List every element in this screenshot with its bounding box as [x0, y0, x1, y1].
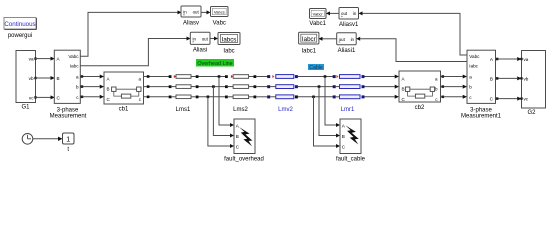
svg-text:B: B [490, 76, 493, 81]
svg-text:Iabc: Iabc [469, 63, 478, 68]
wire Measurement.Iabc to Aliasi [80, 37, 190, 66]
svg-text:a: a [469, 75, 472, 80]
svg-text:b: b [435, 87, 438, 92]
wire Lmr1 to cb2.B [365, 85, 400, 89]
3-phase Measurement block [50, 50, 87, 119]
annotation Cable [308, 64, 324, 71]
wire Aliasv1 to Vabcr [326, 11, 339, 15]
svg-text:B: B [236, 134, 239, 139]
cable segment Lmr1 phase C [333, 95, 365, 99]
wire cb2.c to Measurement1.c [441, 95, 468, 99]
svg-text:a: a [435, 77, 438, 82]
svg-text:out: out [202, 37, 209, 42]
wire cb1.b to Lms1 phase B [144, 85, 171, 88]
svg-text:B: B [57, 76, 60, 81]
svg-text:Iabcs: Iabcs [222, 36, 237, 43]
wire cb1.a to Lms1 phase A [144, 75, 171, 78]
svg-text:out: out [193, 10, 200, 15]
svg-text:b: b [76, 85, 79, 90]
wire G1.vc to Measurement.C [36, 95, 55, 99]
wire Measurement.a to cb1.A [80, 75, 104, 79]
svg-text:Overhead Line: Overhead Line [197, 61, 232, 67]
svg-text:Vabc1: Vabc1 [309, 21, 326, 27]
wire cb1.c to Lms1 phase C [144, 96, 171, 99]
goto tag Iabcs [218, 33, 240, 55]
svg-text:in: in [183, 10, 187, 15]
line segment Lms2 phase A [225, 75, 256, 79]
subsystem Aliasi1 [337, 33, 357, 54]
wire clock to t [33, 137, 63, 141]
wire tap B to fault_cable.B [319, 87, 340, 138]
svg-text:powergui: powergui [8, 33, 32, 39]
wire tap C to fault_overhead.C [208, 97, 234, 148]
svg-text:va: va [524, 57, 529, 62]
svg-text:Aliasi1: Aliasi1 [338, 48, 356, 54]
cable segment Lmr1 phase A [333, 75, 365, 79]
wire G1.va to Measurement.A [36, 57, 55, 61]
svg-text:cb1: cb1 [119, 107, 129, 113]
fault block fault_cable [336, 119, 366, 163]
svg-text:in: in [353, 11, 357, 16]
wire Measurement1.C to G2.vc [496, 97, 522, 101]
wire tap C to fault_cable.C [314, 97, 341, 148]
wire Measurement.Vabc to Aliasv [80, 10, 181, 56]
svg-text:vb: vb [524, 76, 529, 81]
wire Measurement1.Vabc to Aliasv1 [359, 11, 468, 55]
svg-text:Vabc: Vabc [68, 54, 79, 59]
svg-text:Cable: Cable [309, 65, 323, 71]
svg-text:out: out [341, 11, 348, 16]
svg-text:Measurement1: Measurement1 [461, 114, 502, 120]
powergui block Continuous [4, 18, 37, 39]
svg-text:Aliasv: Aliasv [183, 20, 199, 26]
wire Lms1 to Lms2 phase A with tap node [199, 75, 228, 78]
wire Lms2 to Lmv2 phase C [256, 96, 269, 98]
line segment Lms1 phase B [169, 85, 199, 89]
generator G1 [16, 51, 37, 111]
wire Measurement1.B to G2.vb [496, 76, 522, 80]
svg-text:Iabc1: Iabc1 [301, 49, 316, 55]
svg-text:G2: G2 [527, 110, 536, 116]
wire Lms1 to Lms2 phase B with tap node [199, 85, 228, 88]
svg-text:cb2: cb2 [415, 105, 425, 111]
subsystem Aliasi [190, 32, 210, 54]
line segment Lms1 phase A [169, 75, 199, 79]
svg-text:Vabc: Vabc [213, 20, 226, 26]
svg-text:Iabcr: Iabcr [302, 36, 316, 43]
wire G1.vb to Measurement.B [36, 76, 55, 80]
block t (display 1) [63, 133, 75, 153]
wire Measurement.b to cb1.B [80, 85, 104, 89]
goto tag Vabcr [309, 9, 326, 27]
wire Lms2 to Lmv2 phase A [256, 76, 269, 78]
generator G2 [520, 51, 545, 117]
svg-text:Lmv2: Lmv2 [278, 107, 293, 113]
svg-text:Aliasv1: Aliasv1 [339, 22, 359, 28]
3-phase Measurement1 block [461, 50, 502, 119]
wire Measurement1.Iabc to Aliasi1 [356, 37, 467, 62]
line segment Lms2 phase C [225, 95, 256, 99]
svg-text:fault_cable: fault_cable [336, 157, 366, 163]
svg-text:B: B [342, 134, 345, 139]
svg-text:Lms2: Lms2 [233, 107, 248, 113]
breaker cb2 [399, 71, 441, 111]
wire tap A to fault_cable.A [325, 77, 340, 128]
goto tag Vabcs [211, 7, 229, 27]
svg-text:Lmr1: Lmr1 [341, 107, 355, 113]
svg-text:1: 1 [66, 137, 70, 144]
cable segment Lmv2 phase A [267, 75, 298, 79]
wire tap A to fault_overhead.A [219, 77, 234, 128]
subsystem Aliasv1 [339, 8, 359, 28]
wire Aliasi1 to Iabcr [319, 37, 337, 41]
subsystem Aliasv [181, 6, 201, 26]
svg-text:b: b [469, 85, 472, 90]
svg-text:a: a [138, 77, 141, 82]
svg-text:Vabcr: Vabcr [313, 12, 324, 17]
svg-text:fault_overhead: fault_overhead [224, 157, 264, 163]
wire cb2.a to Measurement1.a [441, 75, 468, 79]
svg-text:Vabc: Vabc [469, 54, 480, 59]
cable segment Lmv2 phase C [267, 95, 298, 99]
fault block fault_overhead [224, 119, 264, 163]
svg-text:B: B [107, 87, 110, 92]
wire Lmv2 to Lmr1 phase C with tap node [298, 96, 334, 99]
svg-text:in: in [193, 37, 197, 42]
svg-text:vc: vc [29, 95, 34, 100]
svg-text:Lms1: Lms1 [176, 107, 191, 113]
svg-text:Measurement: Measurement [50, 114, 87, 120]
svg-text:out: out [339, 37, 346, 42]
wire Measurement.c to cb1.C [80, 95, 104, 99]
svg-text:Iabc: Iabc [70, 63, 79, 68]
svg-text:vc: vc [524, 97, 529, 102]
wire tap B to fault_overhead.B [213, 87, 234, 138]
svg-text:Iabc: Iabc [223, 49, 234, 55]
wire Lmr1 to cb2.A [365, 75, 400, 79]
wire Aliasv to Goto Vabcs [202, 10, 211, 14]
svg-text:G1: G1 [21, 105, 30, 111]
svg-text:vb: vb [29, 76, 34, 81]
wire Lms2 to Lmv2 phase B [256, 86, 269, 88]
wire Lmr1 to cb2.C [365, 95, 400, 99]
svg-text:in: in [351, 37, 355, 42]
svg-text:va: va [29, 57, 34, 62]
breaker cb1 [104, 72, 144, 113]
line segment Lms1 phase C [169, 95, 199, 99]
svg-text:a: a [76, 75, 79, 80]
clock block [22, 134, 33, 145]
svg-text:Vabcs: Vabcs [214, 10, 225, 15]
wire Aliasi to Goto Iabcs [211, 37, 219, 41]
cable segment Lmv2 phase B [267, 85, 298, 89]
annotation Overhead Line [196, 59, 234, 67]
wire cb2.b to Measurement1.b [441, 85, 468, 89]
svg-text:Aliasi: Aliasi [193, 48, 207, 54]
line segment Lms2 phase B [225, 85, 256, 89]
wire Measurement1.A to G2.va [496, 57, 522, 61]
svg-text:B: B [402, 87, 405, 92]
svg-text:Continuous: Continuous [4, 21, 35, 28]
cable segment Lmr1 phase B [333, 85, 365, 89]
goto tag Iabcr [299, 32, 319, 54]
wire Lmv2 to Lmr1 phase B with tap node [298, 85, 334, 88]
wire Lms1 to Lms2 phase C with tap node [199, 96, 228, 99]
wire Lmv2 to Lmr1 phase A with tap node [298, 75, 334, 78]
